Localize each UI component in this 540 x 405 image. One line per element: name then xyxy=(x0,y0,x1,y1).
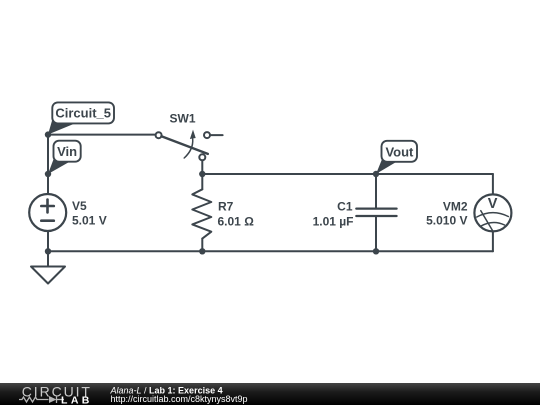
wire switch throw to node xyxy=(201,160,203,174)
net flag Vin xyxy=(48,141,81,174)
VM2 scale arc upper xyxy=(477,213,509,217)
voltmeter VM2 xyxy=(474,194,511,231)
SW1 pole terminal xyxy=(156,132,162,138)
net flag Vout xyxy=(376,141,417,174)
wire V5 bottom lead xyxy=(47,231,49,267)
net flag Circuit_5 xyxy=(48,102,114,134)
svg-text:V: V xyxy=(488,196,498,212)
resistor R7 xyxy=(192,189,211,238)
svg-text:VM2: VM2 xyxy=(443,199,468,213)
SW1 arrowhead xyxy=(190,130,196,139)
node switch output / R7 top xyxy=(199,171,205,177)
node bottom rail at V5 xyxy=(45,248,51,254)
svg-text:Vin: Vin xyxy=(57,144,77,159)
wire left vertical from top rail to V5 xyxy=(47,135,49,194)
SW1 top throw terminal xyxy=(204,132,210,138)
node C1 bottom xyxy=(373,248,379,254)
CircuitLab logo squiggle: wire, resistor, diode xyxy=(19,396,64,403)
wire VM2 top lead xyxy=(492,174,494,195)
wire top rail left: node to switch pole xyxy=(48,134,156,136)
svg-text:V5: V5 xyxy=(72,199,87,213)
SW1 bottom throw terminal xyxy=(199,154,205,160)
wire bottom rail xyxy=(48,250,493,252)
svg-text:5.01 V: 5.01 V xyxy=(72,213,107,227)
svg-text:SW1: SW1 xyxy=(170,112,196,126)
SW1 arm xyxy=(161,136,207,154)
svg-text:5.010 V: 5.010 V xyxy=(426,213,467,227)
wire middle rail (Vout net) xyxy=(202,173,493,175)
footer bar xyxy=(0,383,540,405)
voltage source V5 xyxy=(29,194,66,231)
VM2 scale arc lower xyxy=(481,222,505,226)
wire R7 top lead xyxy=(201,174,203,189)
svg-text:http://circuitlab.com/c8ktynys: http://circuitlab.com/c8ktynys8vt9p xyxy=(111,394,248,404)
svg-text:R7: R7 xyxy=(218,199,234,213)
node Vout / C1 top xyxy=(373,171,379,177)
node R7 bottom xyxy=(199,248,205,254)
C1 bottom plate xyxy=(356,215,396,217)
wire C1 top lead xyxy=(375,174,377,209)
svg-text:6.01 Ω: 6.01 Ω xyxy=(218,214,255,228)
svg-text:Circuit_5: Circuit_5 xyxy=(55,106,111,121)
node Vin tag attach xyxy=(45,171,51,177)
wire R7 bottom lead xyxy=(201,239,203,252)
node Circuit_5/Vin at top rail xyxy=(45,131,51,137)
SW1 top throw stub xyxy=(210,134,223,136)
C1 top plate xyxy=(356,208,396,210)
wire C1 bottom lead xyxy=(375,216,377,251)
svg-text:C1: C1 xyxy=(337,199,353,213)
svg-text:1.01 µF: 1.01 µF xyxy=(313,214,354,228)
svg-text:Vout: Vout xyxy=(385,145,414,160)
wire VM2 bottom lead xyxy=(492,231,494,251)
node junction dots xyxy=(45,131,379,254)
ground xyxy=(31,267,65,284)
svg-text:LAB: LAB xyxy=(61,394,93,405)
capacitor C1 xyxy=(356,209,396,216)
switch SW1 xyxy=(156,132,223,160)
SW1 actuation arrow arc xyxy=(184,139,193,158)
VM2 needle xyxy=(481,211,493,231)
